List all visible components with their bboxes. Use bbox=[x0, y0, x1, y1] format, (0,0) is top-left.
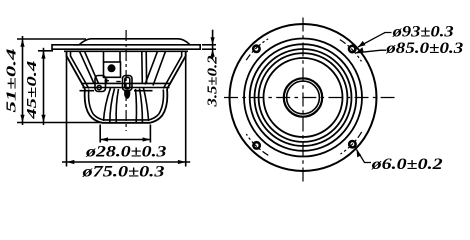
bowl inner bottom line bbox=[93, 114, 158, 120]
magnet bowl inner line right bbox=[159, 90, 164, 115]
surround outer circle bbox=[250, 44, 357, 151]
right terminal tab bbox=[123, 76, 133, 91]
mounting hole bottom-left bbox=[253, 142, 259, 148]
mounting hole top-right bbox=[349, 46, 355, 52]
bowl rib 2 bbox=[110, 89, 115, 123]
bolt circle arc at top-left hole bbox=[246, 39, 268, 60]
basket circle ø75 bbox=[244, 39, 362, 157]
dimension 45 top extension line bbox=[38, 50, 53, 52]
dim 3.5 extension bottom bbox=[202, 48, 216, 50]
leader ø6 bbox=[357, 150, 372, 163]
basket window vertical right 1 bbox=[141, 51, 144, 83]
basket ledge line 3 bbox=[80, 90, 153, 92]
bowl rib 5 bbox=[140, 89, 143, 123]
dimension line 45 bbox=[43, 48, 45, 125]
dimension line 28 bbox=[100, 139, 150, 141]
mounting hole top-left bbox=[253, 46, 259, 52]
magnet bowl inner line left bbox=[89, 90, 94, 115]
dim 75 extension left bbox=[66, 53, 68, 167]
basket spoke right 2 bbox=[153, 51, 166, 85]
dim 28 extension left bbox=[99, 125, 101, 143]
cone edge circle bbox=[259, 53, 348, 142]
minus mark bbox=[116, 81, 120, 83]
svg-text:ø6.0±0.2: ø6.0±0.2 bbox=[370, 156, 442, 173]
svg-text:ø93±0.3: ø93±0.3 bbox=[391, 24, 453, 41]
side view centerline bbox=[125, 30, 127, 131]
svg-text:3.5±0.2: 3.5±0.2 bbox=[206, 56, 221, 108]
bowl rib 1 bbox=[104, 88, 111, 121]
speaker flange plate bbox=[52, 45, 200, 49]
solder drop below tab bbox=[124, 91, 130, 100]
svg-text:ø75.0±0.3: ø75.0±0.3 bbox=[81, 164, 164, 181]
front view vertical centerline bbox=[302, 18, 304, 182]
terminal board bbox=[81, 83, 171, 87]
basket top rim under flange bbox=[64, 50, 188, 52]
plus mark bbox=[105, 79, 109, 83]
terminal block bbox=[104, 62, 121, 77]
bolt circle arc at top-right hole bbox=[340, 40, 362, 62]
lug hole bbox=[97, 86, 101, 90]
bowl rib 6 bbox=[144, 88, 149, 121]
left terminal lug bbox=[95, 76, 106, 92]
dim 75 extension right bbox=[185, 53, 187, 167]
bolt circle arc at bottom-left hole bbox=[246, 134, 268, 155]
bolt circle arc at bottom-right hole bbox=[341, 132, 362, 154]
svg-text:ø28.0±0.3: ø28.0±0.3 bbox=[85, 144, 167, 161]
dimension line 51 bbox=[22, 36, 24, 125]
bowl rib 4 bbox=[135, 89, 138, 123]
dimension line 75 bbox=[62, 161, 190, 163]
terminal block bracket bbox=[104, 51, 121, 62]
basket inner wall right bbox=[163, 51, 181, 88]
dimension line 3.5 bbox=[212, 30, 214, 59]
leader ø93 bbox=[358, 33, 392, 48]
magnet bowl outline bbox=[85, 89, 168, 123]
dim 3.5 extension top bbox=[202, 44, 216, 46]
leader ø85 bbox=[356, 50, 386, 53]
basket spoke right 1 bbox=[145, 51, 158, 84]
gasket dome on flange bbox=[73, 39, 190, 45]
basket inner wall left bbox=[71, 51, 89, 88]
terminal solder eyelet bbox=[108, 64, 116, 72]
dust cap inner bbox=[287, 81, 320, 114]
outer flange circle ø93 bbox=[230, 24, 377, 171]
svg-text:ø85.0±0.3: ø85.0±0.3 bbox=[385, 40, 463, 57]
dim 28 extension right bbox=[149, 125, 151, 143]
svg-text:51±0.4: 51±0.4 bbox=[5, 49, 20, 113]
dimension 51 top extension line bbox=[17, 38, 86, 40]
basket spoke left 2 bbox=[85, 51, 99, 83]
front view horizontal centerline bbox=[224, 97, 395, 99]
basket spoke left 1 bbox=[80, 51, 95, 83]
mounting hole bottom-right bbox=[349, 141, 355, 147]
basket window vertical right 2 bbox=[145, 51, 147, 83]
basket outer wall right bbox=[167, 51, 186, 89]
surround roll circle bbox=[255, 49, 352, 146]
dust cap outer bbox=[284, 78, 322, 116]
basket outer wall left bbox=[67, 51, 86, 89]
cone inner circle bbox=[264, 58, 343, 137]
bowl rib 3 bbox=[116, 89, 118, 123]
svg-text:45±0.4: 45±0.4 bbox=[25, 61, 40, 120]
bottom extension line (magnet base) bbox=[17, 122, 102, 124]
